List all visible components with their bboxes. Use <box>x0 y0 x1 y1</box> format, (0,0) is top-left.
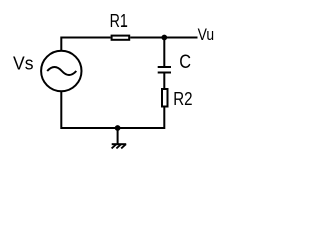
svg-text:R2: R2 <box>173 89 192 109</box>
svg-text:C: C <box>179 52 191 73</box>
svg-text:R1: R1 <box>110 11 128 31</box>
svg-text:Vs: Vs <box>13 53 34 73</box>
svg-text:Vu: Vu <box>198 25 215 44</box>
